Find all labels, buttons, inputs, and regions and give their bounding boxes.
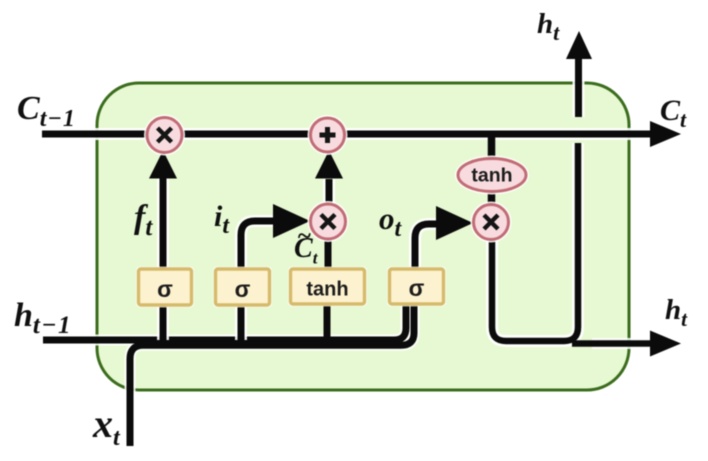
svg-text:σ: σ xyxy=(235,276,251,302)
multiply node (input x candidate) xyxy=(308,201,349,242)
gate box sigma (input) xyxy=(213,267,272,308)
wire: h_t top segment above C line (halo) xyxy=(573,56,585,117)
wire: candidate tanh vertical above box to multiply node xyxy=(325,240,332,272)
wire: forget gate vertical f xyxy=(160,178,167,340)
gate box sigma (output) xyxy=(387,267,446,307)
wire: cell state line C t-1 to C t xyxy=(42,131,656,138)
arrowhead f into multiply node xyxy=(149,151,177,179)
arrowhead h_t right xyxy=(650,331,681,357)
arrowhead o into multiply node xyxy=(436,206,473,240)
plus node on C line xyxy=(308,115,348,155)
wire: tanh ellipse to multiply node xyxy=(488,190,496,206)
svg-text:tanh: tanh xyxy=(471,165,512,187)
arrowhead into plus node xyxy=(315,151,343,179)
arrowhead h_t top xyxy=(566,31,592,59)
wire: output gate o up and right xyxy=(415,224,437,272)
arrowhead i into multiply node xyxy=(273,204,310,238)
wire: multiply node up to plus node xyxy=(326,179,333,204)
wire: C line branch down to tanh ellipse xyxy=(488,137,496,160)
wire: output path from multiply down, right, up xyxy=(492,143,578,341)
multiply node on C line (forget) xyxy=(144,115,185,156)
wire: forget gate vertical f (halo) xyxy=(157,178,169,340)
wire: h_t right exit xyxy=(572,340,654,347)
svg-text:~: ~ xyxy=(297,223,311,250)
LSTM cell body (rounded box) xyxy=(97,83,629,390)
wire: input gate vertical i with curve (halo) xyxy=(241,221,274,340)
wire: output gate vertical above box with curve (halo) xyxy=(415,224,437,272)
wire: h rail A from h_t-1 turning up into o-gate xyxy=(43,300,406,340)
svg-text:σ: σ xyxy=(409,275,425,301)
gate box sigma (forget) xyxy=(136,267,194,308)
wire: h_t top segment above C line xyxy=(575,56,582,117)
wire: output path down, right, and up to h_t top (halo) xyxy=(492,143,578,341)
wire: input gate i up and right xyxy=(241,221,274,340)
wire: h rail A halo xyxy=(43,300,406,340)
wire: x_t input rail B turning up into o-gate xyxy=(130,300,414,446)
svg-text:σ: σ xyxy=(157,276,173,302)
arrowhead C_t output xyxy=(650,121,681,147)
gate box tanh (candidate) xyxy=(288,267,367,307)
wire: candidate tanh vertical below box xyxy=(324,300,331,340)
wire: multiply node to plus node (halo) xyxy=(323,179,335,204)
multiply node (output gate) xyxy=(471,202,512,243)
wire: x_t rail B halo xyxy=(130,300,414,446)
wire: h_t right exit (halo) xyxy=(592,338,654,349)
tanh ellipse on output branch xyxy=(455,156,529,195)
wire: cell state line C (halo) xyxy=(42,128,656,140)
svg-text:tanh: tanh xyxy=(306,279,348,301)
